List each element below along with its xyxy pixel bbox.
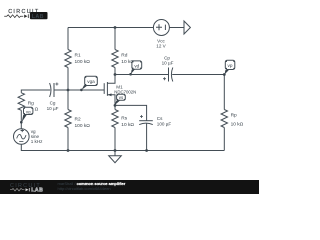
wire input top left — [21, 90, 50, 93]
wire Cp to output corner — [172, 75, 224, 110]
wire drain to Cp — [115, 74, 169, 76]
wire R2 bottom — [67, 128, 69, 151]
node output corner junction — [223, 73, 226, 76]
svg-text:100 µF: 100 µF — [157, 121, 172, 126]
svg-text:vp: vp — [228, 63, 233, 68]
ground (rotated right) — [184, 21, 190, 34]
svg-text:10 µF: 10 µF — [162, 61, 174, 66]
svg-text:http://circuitlab.com/c6844een: http://circuitlab.com/c6844een — [58, 186, 111, 191]
resistor Rg — [18, 93, 24, 111]
label Cs 100 uF — [157, 116, 172, 126]
wire R1 bottom to gate node — [67, 68, 69, 91]
node flag vg — [20, 107, 33, 123]
resistor Rs — [112, 110, 118, 128]
node junction Cs bottom rail — [145, 149, 148, 152]
svg-text:vd: vd — [134, 63, 139, 68]
svg-text:Rg: Rg — [28, 101, 34, 107]
svg-text:1 kHz: 1 kHz — [31, 139, 43, 144]
label M1 NDC7002N — [114, 84, 136, 94]
wire Rs top — [114, 105, 116, 109]
transistor M1 NMOS — [104, 75, 115, 106]
node junction Rs bottom rail — [114, 149, 117, 152]
svg-text:Cs: Cs — [157, 116, 163, 121]
label vg sine 1 kHz — [31, 129, 43, 144]
label Rp 10 k — [231, 113, 244, 128]
label Cp 10 uF — [162, 55, 174, 65]
svg-text:10 µF: 10 µF — [47, 106, 59, 111]
label Rd 10 k — [121, 53, 134, 65]
node flag vga — [80, 76, 97, 91]
wire R1 top — [67, 28, 69, 50]
wire Rd bottom to drain node — [114, 68, 116, 75]
wire Vcc to ground — [169, 27, 184, 29]
node gate junction — [67, 89, 70, 92]
node drain junction — [114, 73, 117, 76]
ground bottom — [109, 151, 122, 163]
label R2 100 k — [75, 117, 91, 129]
resistor R2 — [65, 110, 71, 128]
wire gate — [54, 89, 104, 91]
svg-text:Rd: Rd — [121, 53, 127, 59]
label R1 100 k — [75, 53, 91, 65]
node flag vd — [129, 61, 141, 76]
svg-text:100 kΩ: 100 kΩ — [75, 123, 91, 129]
label Rg 50 ohm — [28, 101, 39, 113]
svg-text:Rs: Rs — [121, 116, 127, 122]
footer bar — [0, 180, 259, 194]
svg-text:Cp: Cp — [164, 55, 170, 60]
svg-text:vga: vga — [87, 79, 95, 84]
svg-text:M1: M1 — [116, 84, 123, 89]
wire Rs bottom — [114, 128, 116, 151]
svg-text:R1: R1 — [75, 53, 81, 59]
node junction top rail to Rd — [114, 26, 117, 29]
svg-text:Cg: Cg — [50, 101, 56, 106]
wire R2 top — [67, 90, 69, 110]
label Rs 10 k — [121, 116, 134, 128]
resistor R1 — [65, 50, 71, 68]
wire source to Cs — [115, 105, 147, 120]
svg-text:100 kΩ: 100 kΩ — [75, 59, 91, 65]
wire Rg to source vg — [20, 110, 22, 129]
svg-text:10 kΩ: 10 kΩ — [231, 122, 244, 128]
capacitor Cp — [163, 68, 173, 82]
node flag vs — [115, 94, 126, 105]
capacitor Cg — [50, 83, 59, 98]
svg-text:Rp: Rp — [231, 113, 237, 119]
node flag vp — [225, 60, 235, 74]
wire Rp bottom to rail — [223, 128, 225, 151]
resistor Rd — [112, 50, 118, 68]
svg-text:10 kΩ: 10 kΩ — [121, 122, 134, 128]
node junction R2 bottom rail — [67, 149, 70, 152]
label Cg 10 uF — [47, 101, 59, 112]
svg-text:LAB: LAB — [31, 188, 43, 194]
CircuitLab watermark logo (top-left) — [4, 9, 47, 20]
svg-text:R2: R2 — [75, 117, 81, 123]
wire vg bottom to rail — [21, 144, 224, 150]
svg-text:LAB: LAB — [32, 14, 44, 20]
svg-text:12 V: 12 V — [156, 43, 166, 48]
node source junction — [114, 104, 117, 107]
wire top rail — [68, 27, 153, 29]
svg-text:vg: vg — [26, 109, 31, 114]
wire Cs bottom — [146, 123, 148, 151]
source vg sine — [13, 129, 29, 145]
capacitor Cs — [139, 115, 153, 125]
resistor Rp — [221, 110, 227, 128]
wire Rd top — [114, 28, 116, 50]
voltage source Vcc — [153, 20, 169, 36]
label Vcc 12 V — [156, 38, 166, 48]
